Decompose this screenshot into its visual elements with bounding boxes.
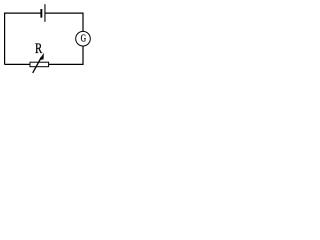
- galvanometer G circle: [76, 31, 91, 46]
- battery cell B1 negative plate (short thick): [40, 9, 42, 18]
- battery cell B1 positive plate (long thin): [44, 4, 45, 22]
- svg-text:R: R: [35, 41, 42, 57]
- wire bottom-left segment: [5, 63, 30, 65]
- rheostat R body box: [30, 62, 49, 66]
- rheostat arrow shaft: [33, 57, 42, 73]
- svg-text:G: G: [81, 33, 87, 44]
- wire top-left segment: [5, 13, 41, 64]
- wire right-bottom segment: [49, 46, 83, 64]
- wire top-right segment: [45, 13, 83, 31]
- rheostat arrow head: [39, 53, 44, 61]
